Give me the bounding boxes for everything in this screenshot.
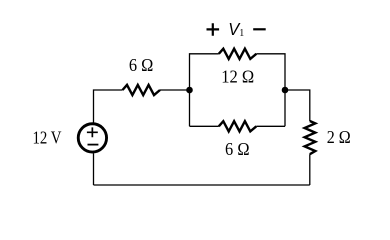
resistor R2 12ohm (top parallel branch) (219, 49, 256, 59)
wire (node B to right rail) (285, 90, 310, 121)
wire (bottom rail) (94, 184, 310, 186)
wire (left side of parallel box) (190, 54, 219, 127)
voltage source plus sign (87, 127, 98, 137)
wire (top-right of parallel box) (256, 54, 285, 127)
label minus (V1 polarity) (253, 28, 266, 30)
resistor R4 2ohm (right vertical) (305, 121, 316, 154)
svg-text:2 Ω: 2 Ω (327, 127, 351, 147)
label plus (V1 polarity) (207, 23, 220, 36)
wire (source bottom lead) (93, 153, 95, 185)
voltage source V1 12V (circle) (78, 124, 106, 152)
wire (160, 89, 190, 91)
resistor R3 6ohm (bottom parallel branch) (219, 121, 256, 131)
svg-text:12 Ω: 12 Ω (221, 66, 254, 86)
svg-text:12 V: 12 V (33, 127, 62, 147)
svg-text:6 Ω: 6 Ω (225, 139, 250, 159)
node B (right junction dot) (282, 87, 289, 94)
wire (bottom-left of parallel box) (190, 125, 219, 127)
resistor R1 6ohm (series, top-left) (123, 85, 161, 95)
wire (right rail down) (309, 154, 311, 185)
svg-text:6 Ω: 6 Ω (129, 55, 154, 75)
node A (left junction dot) (186, 87, 193, 94)
svg-text:1: 1 (239, 28, 244, 39)
wire (94, 90, 123, 123)
wire (bottom-right of parallel box) (256, 125, 285, 127)
voltage source minus sign (88, 144, 99, 146)
